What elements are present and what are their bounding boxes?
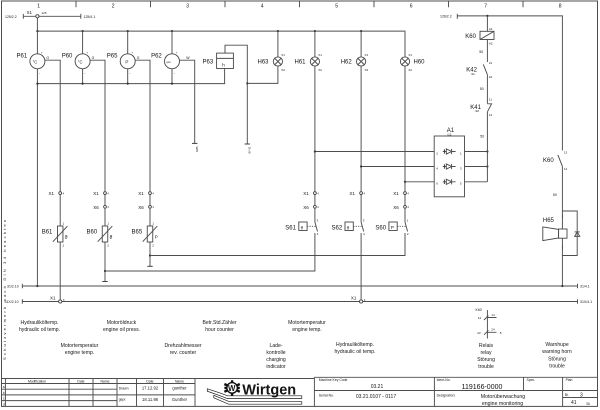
svg-text:kontrolle: kontrolle	[266, 350, 285, 356]
svg-text:X6: X6	[93, 205, 99, 210]
svg-text:24: 24	[491, 328, 495, 332]
Wirtgen logo	[207, 380, 301, 404]
svg-text:Motorüberwachung: Motorüberwachung	[481, 394, 526, 400]
svg-text:31X/4.1: 31X/4.1	[580, 300, 592, 304]
terminal X1 row on sensor and switch columns	[49, 191, 410, 196]
svg-text:gunther: gunther	[172, 386, 187, 391]
svg-text:H60: H60	[414, 59, 426, 65]
svg-text:gepr.: gepr.	[119, 398, 127, 402]
label warning horn function	[542, 342, 572, 370]
svg-text:Machine Key Code: Machine Key Code	[319, 378, 348, 382]
svg-text:/11: /11	[471, 72, 475, 76]
svg-text:31/2.10: 31/2.10	[7, 284, 19, 288]
svg-text:S60: S60	[375, 226, 386, 232]
gauge P62 rev counter	[151, 50, 190, 75]
wire P61 branch	[36, 31, 38, 286]
svg-text:W/9: W/9	[195, 147, 199, 153]
svg-text:03.21.0107 - 0117: 03.21.0107 - 0117	[356, 394, 396, 400]
wire ground bus 31	[7, 284, 590, 289]
svg-text:50: 50	[480, 134, 484, 138]
svg-text:24: 24	[489, 75, 493, 79]
contact mirror cross reference K60	[476, 308, 502, 339]
node W stub to sheet 9	[192, 143, 199, 152]
svg-text:/12: /12	[447, 132, 452, 136]
svg-text:14: 14	[491, 313, 495, 317]
svg-text:Name: Name	[175, 380, 184, 384]
svg-text:warning horn: warning horn	[542, 349, 572, 355]
svg-text:125: 125	[42, 11, 47, 15]
label engine oil pressure function	[103, 320, 140, 333]
svg-text:G: G	[92, 56, 95, 60]
wire 50 K60 contact to horn	[553, 166, 563, 214]
svg-text:Wirtgen: Wirtgen	[242, 382, 296, 398]
wire A1 pin2 to S61 column	[314, 150, 434, 152]
svg-text:/10: /10	[475, 109, 480, 113]
diode V1 inside A1	[443, 149, 456, 154]
lamp H60 engine oil pressure warning	[400, 53, 425, 72]
wire H60-S60 column	[404, 31, 406, 222]
svg-text:Spec.: Spec.	[527, 378, 536, 382]
svg-text:+: +	[86, 50, 88, 54]
wire 50 coil to K42 contact	[479, 40, 492, 66]
svg-text:Warnhupe: Warnhupe	[545, 342, 568, 348]
chassis ground bar below B60	[102, 281, 107, 283]
chassis ground bar below B65	[147, 265, 152, 267]
svg-text:K60: K60	[543, 158, 554, 164]
svg-text:rpm: rpm	[166, 60, 171, 64]
svg-text:engine oil press.: engine oil press.	[103, 327, 140, 333]
svg-text:°C: °C	[33, 60, 38, 65]
node D+ stub to sheet 9	[245, 82, 252, 153]
svg-text:2: 2	[112, 3, 115, 9]
wire P60 branch	[82, 31, 84, 84]
svg-text:31/4.1: 31/4.1	[580, 284, 590, 288]
wire 50 K42 to K41	[480, 75, 493, 104]
svg-text:5: 5	[335, 3, 338, 9]
svg-text:a: a	[3, 385, 5, 389]
switch S62 hydraulic oil temperature switch	[332, 219, 366, 302]
svg-text:B61: B61	[42, 230, 53, 236]
svg-text:A2: A2	[489, 41, 493, 45]
svg-text:Ident-No.: Ident-No.	[437, 378, 451, 382]
svg-text:H61: H61	[295, 59, 307, 65]
svg-text:31X/2.10: 31X/2.10	[5, 300, 19, 304]
svg-text:126/2.2: 126/2.2	[440, 15, 452, 19]
svg-text:18.11.98: 18.11.98	[142, 397, 159, 402]
svg-text:S61: S61	[285, 226, 296, 232]
wire A1 pin4 to S62 column	[360, 165, 434, 167]
svg-text:50: 50	[480, 87, 484, 91]
svg-text:14: 14	[564, 167, 568, 171]
svg-text:50: 50	[479, 50, 483, 54]
svg-text:charging: charging	[266, 357, 286, 363]
svg-text:X2: X2	[365, 68, 369, 72]
label engine temperature gauge function	[61, 343, 99, 356]
svg-text:rev. counter: rev. counter	[170, 350, 197, 356]
svg-text:P61: P61	[17, 54, 28, 60]
svg-text:+: +	[176, 50, 178, 54]
svg-text:B60: B60	[87, 230, 98, 236]
svg-text:13: 13	[564, 150, 568, 154]
svg-text:Störung: Störung	[548, 357, 566, 363]
wire terminal bus 31X	[5, 299, 593, 304]
svg-text:Hydrauliköltemp.: Hydrauliköltemp.	[336, 342, 374, 348]
junction dots minus bus	[36, 83, 173, 85]
relay coil K60	[465, 27, 494, 45]
svg-text:K60: K60	[476, 308, 482, 312]
svg-text:ϑ: ϑ	[65, 235, 68, 241]
svg-text:Gunther: Gunther	[172, 397, 188, 402]
wire P65 branch	[127, 31, 129, 84]
title block data fields	[314, 377, 597, 407]
label hydraulic oil temp gauge function	[19, 320, 60, 333]
svg-text:Drawn: Drawn	[119, 386, 129, 390]
wire B60 column from P60 G output	[90, 60, 105, 281]
lamp H63 charge indicator	[247, 31, 285, 83]
terminal X6 row	[93, 205, 409, 210]
svg-text:ϑ: ϑ	[110, 235, 113, 241]
svg-text:K60: K60	[465, 34, 476, 40]
wire top supply bus	[36, 30, 404, 32]
svg-text:X1: X1	[365, 53, 369, 57]
wire H61-S61 column	[314, 31, 316, 222]
svg-text:Relais: Relais	[479, 343, 494, 349]
svg-text:X1: X1	[27, 10, 33, 15]
svg-text:P60: P60	[62, 54, 73, 60]
svg-text:P62: P62	[151, 54, 162, 60]
svg-text:21: 21	[489, 61, 493, 65]
svg-text:S62: S62	[332, 226, 343, 232]
svg-text:X1: X1	[50, 296, 56, 301]
terminal X1 on bus S62 column	[351, 296, 366, 304]
svg-text:°C: °C	[78, 60, 83, 65]
svg-text:6: 6	[410, 3, 413, 9]
svg-text:125/4.1: 125/4.1	[84, 15, 96, 19]
label engine temperature switch function	[288, 320, 326, 333]
sensor B65 engine oil pressure sender	[132, 222, 158, 248]
svg-text:G: G	[46, 56, 49, 60]
svg-text:relay: relay	[480, 350, 491, 356]
svg-text:hydraulic oil temp.: hydraulic oil temp.	[334, 349, 375, 355]
svg-text:41: 41	[571, 400, 577, 406]
wire B61 column from P61 G output	[45, 60, 60, 301]
svg-text:X1: X1	[49, 191, 55, 196]
label charging indicator function	[266, 343, 286, 370]
svg-text:Betr.Std.Zähler: Betr.Std.Zähler	[203, 320, 237, 326]
wire W output of P62 to node W	[180, 60, 195, 143]
svg-text:X1: X1	[318, 53, 322, 57]
svg-text:X2: X2	[281, 68, 285, 72]
wire node 126 top right	[440, 14, 562, 151]
title block modification table	[2, 377, 314, 406]
svg-text:X1: X1	[351, 296, 357, 301]
label hour counter function	[203, 320, 237, 333]
horn H65 warning horn	[543, 215, 567, 250]
svg-text:X2: X2	[318, 68, 322, 72]
svg-text:H63: H63	[258, 59, 270, 65]
svg-text:d: d	[3, 402, 5, 406]
svg-text:X1: X1	[303, 191, 309, 196]
junction B60 to S61 wire	[104, 270, 106, 272]
wire 50 K41 to A1	[480, 112, 487, 182]
label rev counter function	[164, 343, 201, 356]
svg-text:12: 12	[478, 316, 482, 320]
svg-text:X1: X1	[281, 53, 285, 57]
svg-text:W: W	[228, 384, 236, 393]
svg-text:engine temp.: engine temp.	[65, 350, 94, 356]
wire supply to K60 coil	[486, 16, 488, 31]
sensor B60 engine temperature sender	[87, 222, 113, 248]
wire horn to ground bus	[561, 249, 563, 286]
svg-text:Serial-No.: Serial-No.	[319, 394, 334, 398]
svg-text:7: 7	[484, 3, 487, 9]
wire B65 column from P65 G output	[135, 60, 150, 266]
junction B65 to S60 wire	[149, 254, 151, 256]
svg-text:Störung: Störung	[477, 357, 495, 363]
wire A1 pin6 to S60 column	[404, 181, 434, 183]
svg-text:D+/9: D+/9	[248, 147, 252, 154]
svg-text:indicator: indicator	[266, 364, 286, 370]
gauge P60 engine temperature	[62, 50, 95, 75]
svg-text:+: +	[131, 50, 133, 54]
svg-text:Name: Name	[100, 380, 109, 384]
svg-text:X6: X6	[138, 205, 144, 210]
svg-text:trouble: trouble	[478, 364, 494, 370]
diode V3 inside A1	[443, 179, 456, 184]
svg-text:125/2.2: 125/2.2	[5, 15, 17, 19]
contact K41	[470, 104, 492, 117]
svg-text:H65: H65	[543, 218, 555, 224]
svg-text:X6: X6	[393, 205, 399, 210]
svg-text:trouble: trouble	[549, 364, 565, 370]
svg-text:+: +	[41, 50, 43, 54]
svg-text:Schutzvermerk nach DIN 34 beac: Schutzvermerk nach DIN 34 beachten	[2, 218, 7, 360]
gauge P65 engine oil pressure	[107, 50, 140, 75]
svg-text:H62: H62	[341, 59, 353, 65]
svg-text:22: 22	[477, 331, 481, 335]
svg-text:Designation:: Designation:	[437, 394, 456, 398]
svg-text:hydraulic oil temp.: hydraulic oil temp.	[19, 327, 60, 333]
diode module A1	[434, 128, 464, 197]
svg-text:50: 50	[553, 193, 557, 197]
svg-text:X2: X2	[408, 68, 412, 72]
svg-text:Plan: Plan	[566, 378, 573, 382]
wire minus bus of gauges	[37, 69, 224, 84]
svg-text:X6: X6	[303, 205, 309, 210]
contact K60 right branch	[543, 150, 568, 171]
switch S61 engine temperature switch	[105, 219, 319, 271]
svg-text:P: P	[125, 59, 128, 64]
switch S60 engine oil pressure switch	[150, 219, 409, 256]
terminal X1 on bus B61 column	[50, 296, 65, 304]
node X1 terminal 125 top left	[5, 10, 95, 31]
svg-text:b: b	[3, 391, 5, 395]
lamp H62 hydraulic oil temperature warning	[341, 53, 369, 72]
svg-text:X1: X1	[393, 191, 399, 196]
svg-text:G: G	[137, 56, 140, 60]
svg-text:119166-0000: 119166-0000	[462, 384, 503, 391]
svg-text:A1: A1	[489, 27, 493, 31]
svg-text:11: 11	[489, 97, 492, 101]
diode V60 across horn	[562, 211, 579, 256]
label relay trouble function	[477, 343, 495, 370]
sensor B61 hydraulic oil temperature sender	[42, 222, 68, 248]
svg-text:engine monitoring: engine monitoring	[482, 401, 523, 407]
svg-text:Motortemperatur: Motortemperatur	[288, 320, 326, 326]
svg-text:12: 12	[489, 113, 493, 117]
svg-text:1: 1	[37, 3, 40, 9]
svg-text:Motoröldruck: Motoröldruck	[107, 320, 137, 326]
svg-text:8: 8	[559, 3, 562, 9]
svg-text:X1: X1	[408, 53, 412, 57]
svg-text:03.21: 03.21	[371, 384, 384, 390]
svg-text:P65: P65	[107, 54, 118, 60]
gauge P61 hydraulic oil temperature	[17, 50, 50, 75]
svg-text:Drehzahlmesser: Drehzahlmesser	[164, 343, 201, 349]
diode V2 inside A1	[443, 164, 456, 169]
svg-text:B65: B65	[132, 230, 143, 236]
contact K42	[466, 64, 492, 78]
svg-text:hour counter: hour counter	[205, 327, 234, 333]
svg-text:17.12.92: 17.12.92	[142, 386, 159, 391]
svg-text:P63: P63	[203, 59, 214, 65]
hour counter P63	[203, 45, 248, 144]
svg-text:4: 4	[261, 3, 264, 9]
wire P62 branch	[171, 31, 173, 84]
wire A1 pins 1 3 5 to relay chain	[465, 150, 489, 181]
svg-text:Modification: Modification	[28, 380, 46, 384]
svg-text:Hydrauliköltemp.: Hydrauliköltemp.	[21, 320, 59, 326]
svg-text:X1: X1	[349, 191, 355, 196]
svg-text:Motortemperatur: Motortemperatur	[61, 343, 99, 349]
svg-text:Date: Date	[146, 380, 153, 384]
svg-text:Bl.: Bl.	[587, 402, 591, 406]
svg-text:3: 3	[186, 3, 189, 9]
svg-text:Bl.: Bl.	[565, 393, 569, 397]
svg-text:X1: X1	[138, 191, 144, 196]
svg-text:3: 3	[580, 393, 583, 399]
svg-text:Lade-: Lade-	[269, 343, 282, 349]
svg-text:P: P	[391, 225, 394, 230]
lamp H61 engine temperature warning	[295, 53, 323, 72]
svg-text:engine temp.: engine temp.	[292, 327, 321, 333]
svg-text:Date: Date	[77, 380, 84, 384]
wire H62-S62 column	[360, 31, 362, 222]
svg-text:P: P	[155, 235, 158, 240]
label hydraulic oil temp switch function	[334, 342, 375, 355]
svg-text:X1: X1	[93, 191, 99, 196]
